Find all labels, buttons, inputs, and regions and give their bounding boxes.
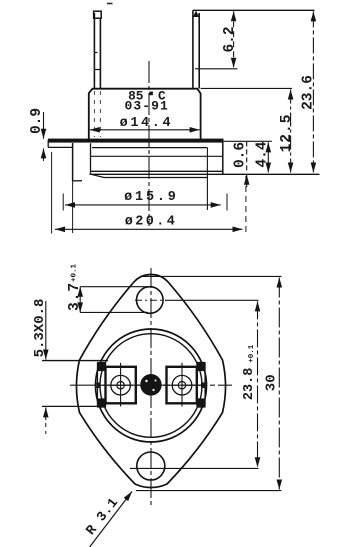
can inner mid line [91, 155, 223, 157]
svg-text:0.9: 0.9 [29, 108, 45, 134]
svg-text:6.2: 6.2 [222, 26, 238, 52]
svg-text:+0.1: +0.1 [71, 264, 79, 283]
svg-text:03-91: 03-91 [124, 99, 169, 114]
blade crimp notch [193, 11, 199, 18]
svg-text:ø20.4: ø20.4 [125, 214, 178, 229]
can right outer edge [222, 141, 224, 174]
can bottom main line and long extension to 23.6 [90, 173, 320, 175]
can bottom upper line [91, 170, 223, 172]
stray scan dash above pin [107, 3, 113, 5]
radius leader R 3.1 [90, 492, 132, 547]
right rivet circles [172, 375, 192, 395]
can inner circle [100, 334, 202, 438]
svg-text:ø14.4: ø14.4 [120, 116, 174, 131]
cap (bakelite cover) outline [89, 89, 201, 141]
flange outline (rounded diamond) [77, 274, 226, 487]
extension line (cap top to right) [201, 87, 292, 89]
centerline vertical (bottom view) [150, 268, 152, 508]
can inner right wall / extension [206, 148, 208, 210]
extension line bottom of 6.2 [195, 68, 238, 70]
centerline horizontal (bottom view) [70, 384, 232, 386]
dimension 6.2 [233, 11, 235, 68]
terminal top edge / extension line to 23.6 dim [193, 9, 315, 11]
can outer left edge and extension to ø20.4 [72, 143, 74, 181]
dimension line ø14.4 [90, 129, 200, 131]
left clip bracket [97, 363, 106, 408]
left terminal square [106, 367, 136, 404]
left rivet circles [111, 375, 131, 395]
left crosshair [103, 384, 140, 386]
svg-text:23.8: 23.8 [242, 368, 257, 400]
pin hidden lines inside cap [94, 91, 100, 137]
centerline (side view) [148, 61, 150, 226]
svg-text:30: 30 [264, 374, 280, 391]
svg-text:ø15.9: ø15.9 [124, 190, 179, 205]
extension line (flange top to right) [224, 140, 272, 142]
can bottom left hook [73, 180, 82, 182]
flange left tip [47, 140, 49, 148]
right terminal square [167, 367, 197, 404]
svg-text:12.5: 12.5 [279, 114, 295, 153]
svg-text:23.6: 23.6 [301, 75, 317, 110]
svg-text:+0.1: +0.1 [248, 344, 256, 363]
left terminal pin [94, 11, 102, 88]
right terminal blade [193, 10, 199, 88]
flange heavy top line [48, 139, 224, 143]
top hole horizontal centerline [135, 299, 166, 301]
right crosshair [163, 384, 204, 386]
bottom mounting hole [137, 452, 165, 480]
flange left lip bottom [48, 146, 73, 148]
center contact blob [140, 374, 161, 396]
can inner top line [92, 147, 207, 149]
right clip bracket [197, 363, 205, 408]
can bottom step [91, 174, 207, 177]
top mounting hole [137, 287, 164, 314]
can inner left wall [90, 143, 92, 173]
can outer circle [96, 329, 207, 442]
